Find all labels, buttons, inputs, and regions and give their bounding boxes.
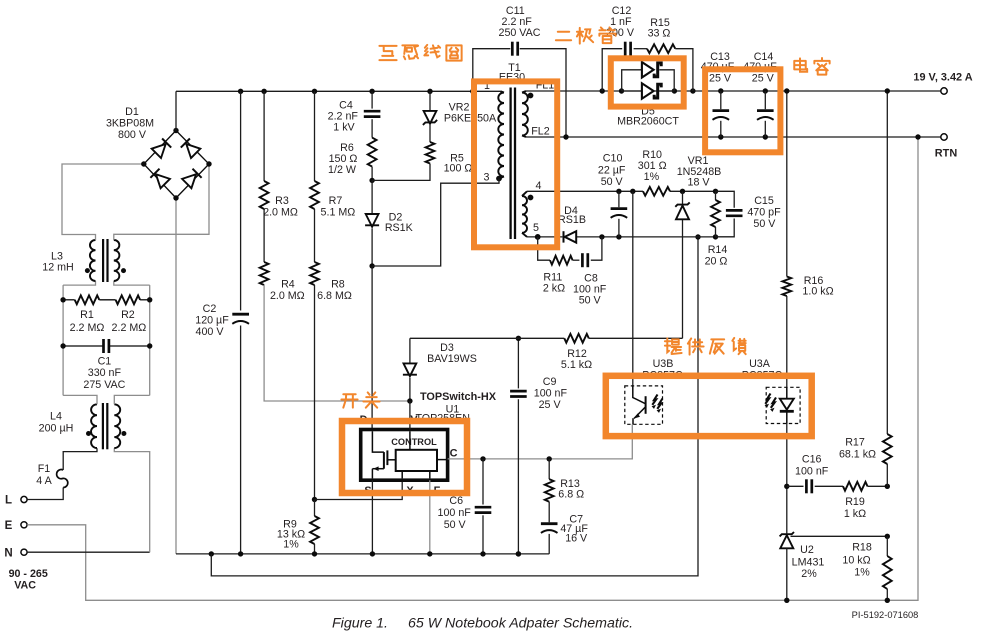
wire U2 ref line bbox=[791, 535, 888, 537]
wire bridge bottom to primary return bbox=[175, 198, 177, 554]
resistor R4 bbox=[263, 209, 265, 262]
node C9 top/bottom bbox=[516, 336, 521, 341]
wire bulk cap branch bbox=[240, 91, 242, 310]
svg-text:RTN: RTN bbox=[935, 148, 958, 160]
node output rail junctions bbox=[600, 88, 605, 93]
svg-text:12 mH: 12 mH bbox=[42, 262, 73, 274]
svg-text:4 A: 4 A bbox=[36, 475, 52, 487]
wire T1 pin3 to drain node bbox=[372, 179, 499, 267]
node bottom feedback junctions bbox=[784, 598, 789, 603]
resistor R9 bbox=[314, 500, 316, 517]
svg-text:R2: R2 bbox=[121, 309, 135, 321]
svg-text:100 nF: 100 nF bbox=[795, 466, 829, 478]
wire V pin stub bbox=[409, 401, 411, 430]
highlight label kai-guan bbox=[341, 394, 357, 407]
capacitor C12 and resistor R15 snubber bbox=[602, 49, 622, 91]
svg-text:50 V: 50 V bbox=[753, 218, 776, 230]
highlight box feedback bbox=[606, 376, 812, 436]
svg-text:R4: R4 bbox=[281, 279, 295, 291]
svg-text:R3: R3 bbox=[275, 195, 289, 207]
svg-text:TOPSwitch-HX: TOPSwitch-HX bbox=[420, 391, 497, 403]
node ground rail junctions bbox=[209, 551, 214, 556]
wire feedback node bbox=[786, 424, 788, 534]
capacitor C6 bbox=[482, 459, 484, 505]
svg-text:5.1 MΩ: 5.1 MΩ bbox=[321, 207, 356, 219]
capacitor C16 and resistor R19 bbox=[787, 485, 804, 487]
node clamp top bbox=[369, 178, 374, 183]
svg-text:VR1: VR1 bbox=[688, 155, 709, 167]
svg-text:C9: C9 bbox=[543, 376, 557, 388]
svg-text:10 kΩ: 10 kΩ bbox=[842, 555, 870, 567]
transformer T1 bias winding bbox=[522, 191, 527, 196]
svg-text:25 V: 25 V bbox=[709, 72, 732, 84]
node C16 left bbox=[784, 484, 789, 489]
node RTN rail junctions bbox=[563, 134, 568, 139]
svg-text:U3B: U3B bbox=[653, 358, 674, 370]
wire bias winding bottom line bbox=[527, 236, 562, 238]
svg-text:250 VAC: 250 VAC bbox=[499, 27, 541, 39]
highlight label ti-gong-fan-kui bbox=[665, 338, 682, 354]
svg-text:VR2: VR2 bbox=[449, 101, 470, 113]
svg-text:C6: C6 bbox=[449, 495, 463, 507]
svg-text:2 kΩ: 2 kΩ bbox=[543, 283, 565, 295]
node R1 left / R2 right bbox=[60, 297, 65, 302]
svg-text:50 V: 50 V bbox=[601, 176, 624, 188]
resistor R3 bbox=[263, 91, 265, 181]
wire bias return line bbox=[211, 237, 698, 576]
optocoupler U3A LED bbox=[766, 387, 800, 423]
highlight label hu-gan-xian-quan bbox=[379, 46, 396, 60]
svg-text:800 V: 800 V bbox=[118, 129, 147, 141]
svg-text:470 pF: 470 pF bbox=[747, 207, 781, 219]
svg-text:L: L bbox=[5, 495, 12, 507]
transformer T1 secondary winding bbox=[522, 91, 526, 93]
svg-text:33 Ω: 33 Ω bbox=[648, 28, 671, 40]
svg-text:400 V: 400 V bbox=[196, 326, 225, 338]
svg-text:1/2 W: 1/2 W bbox=[328, 164, 357, 176]
wire bridge top to rail bbox=[175, 91, 177, 130]
wire E to RTN (earth return) bbox=[27, 137, 918, 600]
input terminal E bbox=[21, 522, 27, 528]
resistor R12 bbox=[410, 337, 564, 339]
resistor R7 bbox=[314, 91, 316, 181]
svg-text:LM431: LM431 bbox=[792, 557, 825, 569]
input terminal L bbox=[21, 496, 27, 502]
diode D4 bbox=[563, 231, 565, 242]
svg-text:VAC: VAC bbox=[14, 579, 36, 591]
zener VR2 bbox=[429, 91, 431, 111]
svg-text:R17: R17 bbox=[845, 436, 865, 448]
svg-text:C10: C10 bbox=[603, 153, 623, 165]
svg-text:5.1 kΩ: 5.1 kΩ bbox=[561, 359, 592, 371]
svg-text:25 V: 25 V bbox=[539, 399, 562, 411]
svg-text:C16: C16 bbox=[802, 454, 822, 466]
svg-text:L3: L3 bbox=[51, 250, 63, 262]
svg-text:C2: C2 bbox=[203, 303, 217, 315]
U1 internal pin leads bbox=[409, 431, 411, 450]
svg-text:Figure 1.: Figure 1. bbox=[332, 616, 388, 632]
svg-text:L4: L4 bbox=[50, 410, 62, 422]
node pin5 bbox=[535, 234, 541, 240]
capacitor C14 bbox=[764, 91, 766, 109]
capacitor C4 bbox=[371, 91, 373, 108]
inductor L4 bbox=[102, 403, 104, 449]
svg-text:20 Ω: 20 Ω bbox=[705, 256, 728, 268]
svg-text:90 - 265: 90 - 265 bbox=[9, 568, 48, 580]
resistor R16 bbox=[786, 91, 788, 277]
svg-text:P6KE250A: P6KE250A bbox=[444, 113, 497, 125]
resistor R8 bbox=[314, 209, 316, 262]
wire L3 top-right to bridge bbox=[114, 164, 209, 240]
wire X pin bbox=[315, 480, 403, 499]
svg-text:D3: D3 bbox=[440, 342, 454, 354]
capacitor C7 bbox=[548, 502, 550, 523]
svg-text:1 kV: 1 kV bbox=[333, 121, 355, 133]
svg-text:100 nF: 100 nF bbox=[438, 507, 472, 519]
optocoupler U3B phototransistor bbox=[625, 386, 663, 424]
node X divider junction bbox=[312, 497, 317, 502]
svg-text:F1: F1 bbox=[38, 463, 51, 475]
node C1 ends bbox=[60, 343, 65, 348]
svg-text:C11: C11 bbox=[506, 5, 525, 17]
highlight label dian-rong bbox=[794, 58, 807, 71]
wire VR1 anode riser bbox=[682, 219, 684, 338]
wire R8 to X node bbox=[314, 285, 316, 500]
svg-text:16 V: 16 V bbox=[565, 533, 588, 545]
svg-text:1 kΩ: 1 kΩ bbox=[844, 508, 866, 520]
svg-text:N: N bbox=[4, 547, 12, 559]
highlight box capacitor bbox=[705, 69, 780, 152]
resistor R6 bbox=[368, 138, 377, 167]
resistor R11 and capacitor C8 snubber bbox=[538, 237, 550, 260]
svg-text:330 nF: 330 nF bbox=[88, 367, 122, 379]
wire drain to D pin bbox=[371, 266, 373, 430]
svg-text:4: 4 bbox=[536, 180, 542, 192]
svg-text:RS1B: RS1B bbox=[558, 214, 586, 226]
svg-text:3: 3 bbox=[484, 171, 490, 183]
svg-text:C12: C12 bbox=[612, 5, 632, 17]
resistor R1 bbox=[63, 299, 75, 301]
svg-text:R18: R18 bbox=[852, 541, 872, 553]
svg-text:C15: C15 bbox=[754, 195, 774, 207]
svg-text:120 µF: 120 µF bbox=[195, 315, 229, 327]
capacitor C10 bbox=[618, 191, 620, 207]
highlight box switch bbox=[342, 421, 467, 493]
resistor R5 bbox=[429, 125, 431, 142]
svg-text:PI-5192-071608: PI-5192-071608 bbox=[852, 610, 919, 620]
wire S pin to rail bbox=[371, 480, 373, 554]
highlight label er-ji-guan bbox=[556, 32, 571, 41]
svg-text:CONTROL: CONTROL bbox=[391, 437, 437, 447]
resistor R18 bbox=[886, 536, 888, 556]
svg-text:275 VAC: 275 VAC bbox=[83, 379, 125, 391]
svg-text:C: C bbox=[450, 447, 458, 459]
wire N to L4 bbox=[27, 551, 150, 553]
svg-text:2%: 2% bbox=[801, 568, 817, 580]
wire L to fuse bbox=[27, 488, 63, 500]
node drain junction bbox=[369, 263, 374, 268]
svg-text:5: 5 bbox=[533, 222, 539, 234]
svg-text:2.0 MΩ: 2.0 MΩ bbox=[270, 290, 305, 302]
node bias return top bbox=[695, 234, 700, 239]
resistor R13 bbox=[548, 459, 550, 479]
svg-text:C1: C1 bbox=[98, 356, 112, 368]
svg-text:R19: R19 bbox=[845, 496, 865, 508]
CONTROL block bbox=[396, 450, 437, 471]
wire U3B collector line bbox=[632, 191, 634, 386]
capacitor C15 bbox=[716, 191, 735, 207]
svg-text:FL2: FL2 bbox=[531, 125, 549, 137]
node ref junction bbox=[885, 534, 890, 539]
transformer T1 core bbox=[509, 88, 511, 240]
svg-text:6.8 MΩ: 6.8 MΩ bbox=[317, 290, 352, 302]
svg-text:1%: 1% bbox=[283, 538, 299, 550]
svg-text:19 V, 3.42 A: 19 V, 3.42 A bbox=[913, 72, 972, 84]
svg-text:18 V: 18 V bbox=[688, 176, 711, 188]
svg-text:2.0 MΩ: 2.0 MΩ bbox=[263, 207, 298, 219]
svg-text:R14: R14 bbox=[708, 244, 728, 256]
wire L3 top-left to bridge bbox=[62, 164, 144, 240]
output terminal 19V bbox=[941, 88, 947, 94]
wire primary ground rail bbox=[176, 553, 549, 555]
svg-text:65 W Notebook Adpater Schemati: 65 W Notebook Adpater Schematic. bbox=[408, 616, 633, 632]
wire output rail bbox=[526, 90, 941, 92]
svg-text:50 V: 50 V bbox=[579, 295, 602, 307]
highlight box diode bbox=[611, 58, 684, 106]
bridge rectifier D1 bbox=[144, 131, 209, 199]
svg-text:R8: R8 bbox=[331, 279, 345, 291]
wire F pin to rail bbox=[429, 480, 431, 554]
diode D3 bbox=[409, 338, 411, 363]
shunt regulator U2 LM431 bbox=[780, 532, 794, 536]
svg-text:MBR2060CT: MBR2060CT bbox=[617, 115, 679, 127]
svg-text:U3A: U3A bbox=[749, 358, 771, 370]
svg-text:RS1K: RS1K bbox=[385, 222, 414, 234]
node bias top junctions bbox=[616, 189, 621, 194]
resistor R2 bbox=[116, 295, 141, 304]
capacitor C11 branch bbox=[473, 49, 511, 92]
svg-text:R7: R7 bbox=[329, 195, 343, 207]
node R19 right bbox=[885, 484, 890, 489]
svg-text:U2: U2 bbox=[800, 544, 814, 556]
node top rail junctions bbox=[238, 89, 243, 94]
svg-text:R12: R12 bbox=[567, 348, 587, 360]
capacitor C1 bbox=[63, 345, 103, 347]
capacitor C2 bbox=[232, 313, 249, 316]
highlight box transformer bbox=[474, 81, 557, 247]
svg-text:1%: 1% bbox=[644, 171, 660, 183]
wire fuse to L4 bbox=[63, 448, 97, 470]
node C pin junctions bbox=[480, 456, 485, 461]
capacitor C13 bbox=[720, 91, 722, 109]
svg-text:50 V: 50 V bbox=[444, 519, 467, 531]
fuse F1 bbox=[57, 470, 68, 488]
svg-text:100 Ω: 100 Ω bbox=[444, 163, 473, 175]
node V pin junction bbox=[407, 398, 412, 403]
svg-text:22 µF: 22 µF bbox=[598, 164, 626, 176]
diode D5 MBR2060CT bbox=[622, 70, 642, 91]
svg-text:1%: 1% bbox=[854, 567, 870, 579]
resistor R17 bbox=[886, 91, 888, 434]
zener VR1 bbox=[682, 191, 684, 204]
diode D2 bbox=[371, 180, 373, 214]
TOPSwitch U1 package box bbox=[361, 430, 448, 481]
output terminal RTN bbox=[941, 134, 947, 140]
capacitor C9 bbox=[517, 338, 519, 388]
svg-text:R10: R10 bbox=[642, 149, 662, 161]
common-mode choke L3 bbox=[102, 239, 104, 282]
wire R4 to V pin bbox=[264, 285, 410, 401]
svg-text:100 nF: 100 nF bbox=[534, 387, 568, 399]
svg-text:3KBP08M: 3KBP08M bbox=[106, 118, 154, 130]
svg-text:2.2 MΩ: 2.2 MΩ bbox=[112, 322, 147, 334]
wire L4 tops to filter box bbox=[63, 395, 97, 404]
wire primary top rail bbox=[176, 90, 501, 92]
svg-text:BAV19WS: BAV19WS bbox=[427, 353, 477, 365]
node bias bottom junctions bbox=[599, 234, 604, 239]
wire bias winding top line bbox=[527, 190, 643, 192]
svg-text:E: E bbox=[5, 520, 13, 532]
svg-text:200 µH: 200 µH bbox=[39, 422, 74, 434]
svg-text:2.2 MΩ: 2.2 MΩ bbox=[70, 322, 105, 334]
wire C pin to optocoupler emitter bbox=[448, 424, 633, 459]
transformer T1 primary winding bbox=[501, 91, 505, 92]
input terminal N bbox=[21, 549, 27, 555]
svg-text:25 V: 25 V bbox=[752, 72, 775, 84]
wire RTN rail bbox=[526, 136, 941, 138]
resistor R14 bbox=[715, 191, 717, 200]
svg-text:R1: R1 bbox=[80, 309, 94, 321]
svg-text:1.0 kΩ: 1.0 kΩ bbox=[802, 285, 833, 297]
MOSFET inside U1 bbox=[372, 431, 384, 452]
resistor R10 bbox=[643, 187, 670, 196]
svg-text:D1: D1 bbox=[125, 106, 139, 118]
svg-text:6.8 Ω: 6.8 Ω bbox=[558, 488, 584, 500]
svg-text:68.1 kΩ: 68.1 kΩ bbox=[839, 449, 876, 461]
wire filter box sides bbox=[62, 285, 64, 395]
